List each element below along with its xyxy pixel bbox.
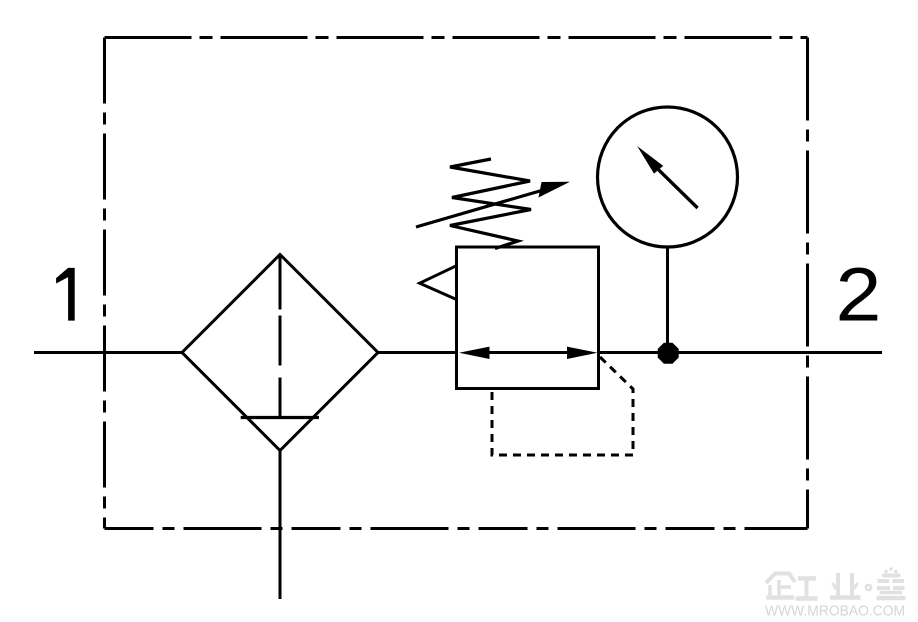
enclosure border top (dash-dot)	[105, 36, 808, 39]
wire: regulator to outlet port 2	[597, 351, 882, 354]
regulator R1 flow arrowhead right	[567, 347, 598, 359]
regulator R1 adjustment arrow shaft	[416, 190, 545, 228]
regulator R1 adjustment arrowhead	[539, 182, 571, 198]
regulator R1 flow arrowhead left	[459, 347, 490, 359]
regulator R1 relief triangle	[420, 266, 457, 300]
svg-text:2: 2	[836, 251, 882, 337]
gauge G1 needle shaft	[659, 170, 698, 208]
enclosure border right (dash-dot)	[806, 38, 809, 529]
wire: filter to regulator	[376, 351, 458, 354]
node: junction dot	[658, 343, 679, 364]
wire: condensate drain	[279, 451, 282, 600]
wire: inlet port 1	[34, 351, 184, 354]
enclosure border left (dash-dot)	[103, 38, 106, 529]
gauge G1 needle arrowhead	[637, 146, 663, 174]
gauge G1 stem wire	[666, 247, 669, 353]
regulator R1 pilot feedback dashed line	[492, 357, 633, 455]
filter F1 diamond body	[182, 255, 378, 451]
port 1 label	[56, 268, 75, 321]
regulator R1 body	[457, 247, 599, 389]
svg-text:WWW.MROBAO.COM: WWW.MROBAO.COM	[765, 604, 905, 620]
regulator R1 spring	[450, 159, 531, 249]
enclosure border bottom (dash-dot)	[105, 527, 808, 530]
watermark logo (stylized gray CJK)	[766, 567, 906, 599]
filter F1 separator line	[241, 416, 319, 419]
filter F1 dashed centerline	[279, 255, 282, 418]
gauge G1 dial circle	[598, 107, 738, 247]
regulator R1 flow arrow line	[470, 351, 585, 354]
